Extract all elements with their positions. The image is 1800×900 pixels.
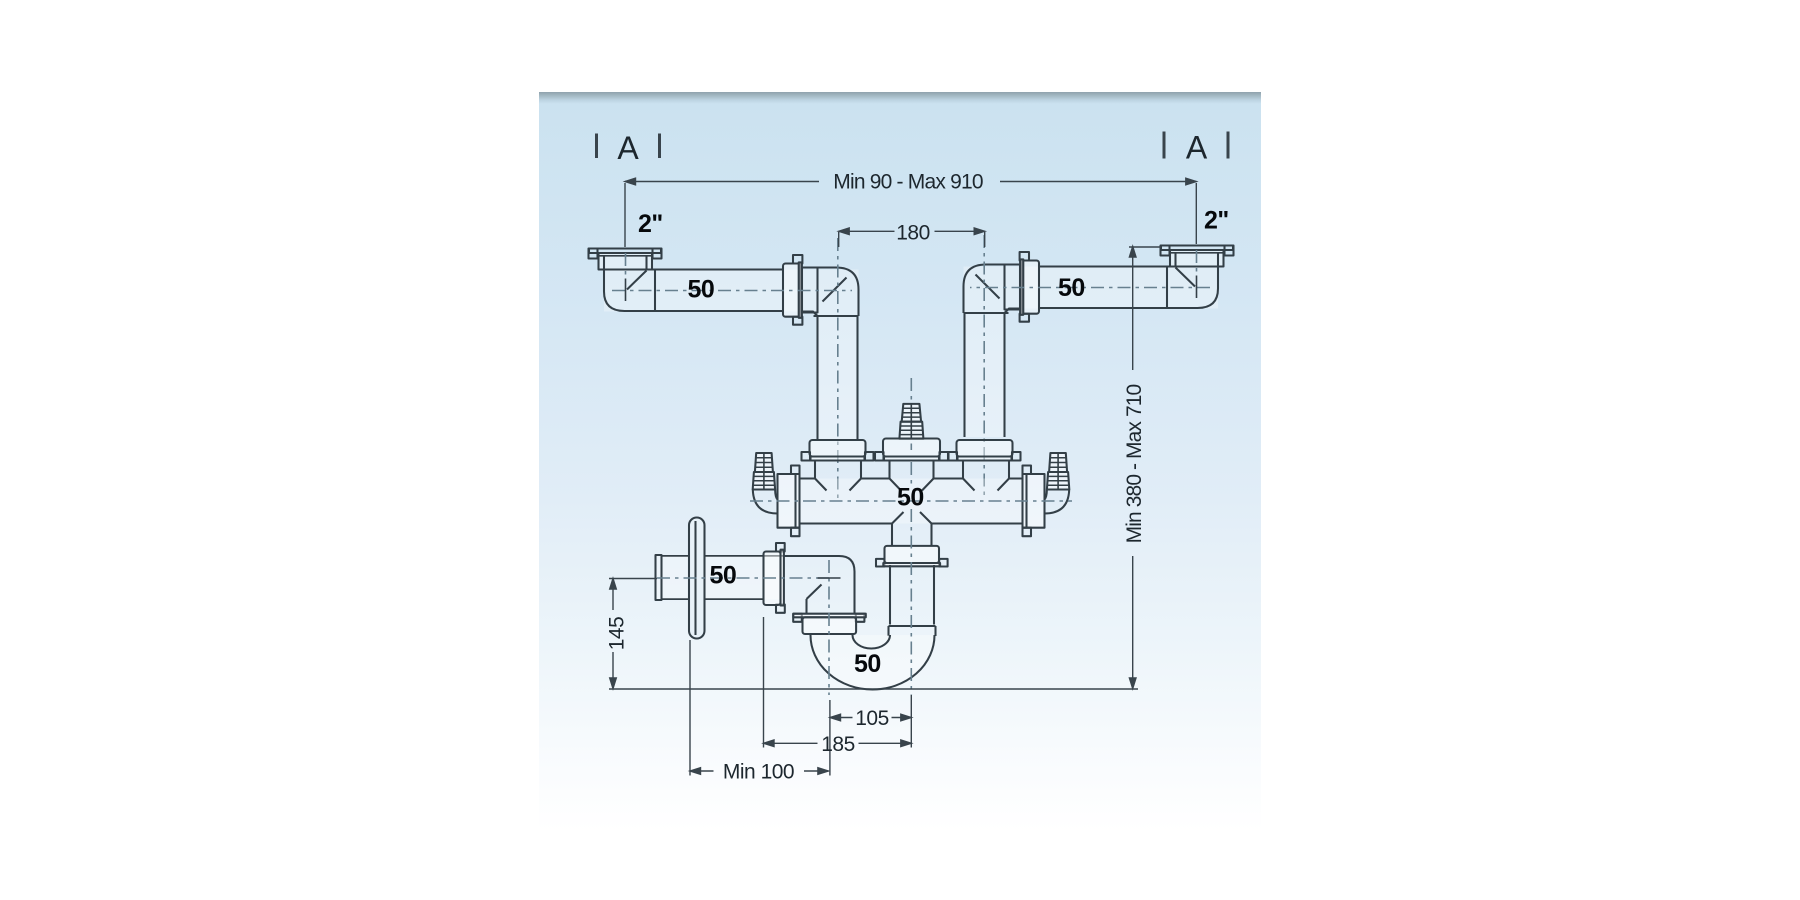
elbow cross ticks: [818, 577, 841, 579]
centerlines: [657, 378, 1072, 695]
svg-text:2": 2": [1204, 207, 1229, 235]
nut below manifold: [876, 559, 884, 567]
dim Min 90 - Max 910: [625, 181, 1196, 183]
svg-text:A: A: [1186, 130, 1208, 166]
dim Min 380 - Max 710 vertical: [1132, 248, 1134, 687]
manifold bottom edge: [800, 522, 1023, 524]
trap U-bend: [811, 635, 935, 690]
svg-text:145: 145: [606, 617, 629, 651]
svg-text:50: 50: [710, 562, 737, 590]
svg-text:50: 50: [688, 276, 715, 304]
datum baseline: [609, 688, 1138, 690]
svg-text:50: 50: [854, 650, 881, 678]
dim 145 vertical: [612, 580, 614, 687]
bottom T outlet walls: [892, 524, 932, 547]
center vent barb: [899, 404, 923, 439]
svg-text:Min 100: Min 100: [723, 761, 794, 784]
center cap nut: [883, 439, 940, 457]
wall flange: [689, 518, 705, 639]
trap left nut: [793, 614, 802, 622]
light blue gradient panel: [539, 92, 1261, 832]
section marker A left bars: [597, 132, 1229, 159]
outlet nut: [776, 543, 785, 552]
outlet pipe: [662, 556, 785, 599]
svg-text:A: A: [617, 130, 639, 166]
svg-text:2": 2": [638, 210, 663, 238]
nut on right standpipe: [957, 440, 1013, 457]
right hose barb: [1045, 453, 1070, 514]
dim 180: [839, 230, 985, 232]
svg-text:50: 50: [1058, 274, 1085, 302]
outlet elbow: [785, 556, 855, 614]
dim Min 100: [690, 770, 828, 772]
svg-text:105: 105: [855, 707, 889, 730]
manifold left end nut: [778, 474, 800, 528]
svg-text:Min 380 - Max 710: Min 380 - Max 710: [1123, 384, 1146, 543]
left hose barb: [753, 453, 778, 514]
svg-text:50: 50: [897, 484, 924, 512]
nut on left standpipe: [810, 440, 866, 457]
manifold top edge: [800, 477, 1023, 479]
trap down pipe: [890, 565, 934, 625]
dim 185: [764, 742, 912, 744]
extension lines bottom: [689, 640, 691, 776]
pipe end ring: [656, 555, 662, 600]
dim 105: [830, 717, 911, 719]
T chamfer diagonals: [815, 479, 1009, 524]
outlet pipe fill: [656, 556, 785, 599]
manifold body fill: [800, 479, 1023, 524]
right sink drain assembly (mirrored): [964, 235, 1234, 496]
svg-text:180: 180: [896, 222, 930, 245]
T sockets: [815, 461, 1009, 479]
left sink drain assembly: [589, 238, 859, 499]
svg-text:185: 185: [821, 733, 855, 756]
manifold right end nut: [1023, 474, 1045, 528]
svg-text:Min 90 - Max 910: Min 90 - Max 910: [833, 171, 983, 194]
